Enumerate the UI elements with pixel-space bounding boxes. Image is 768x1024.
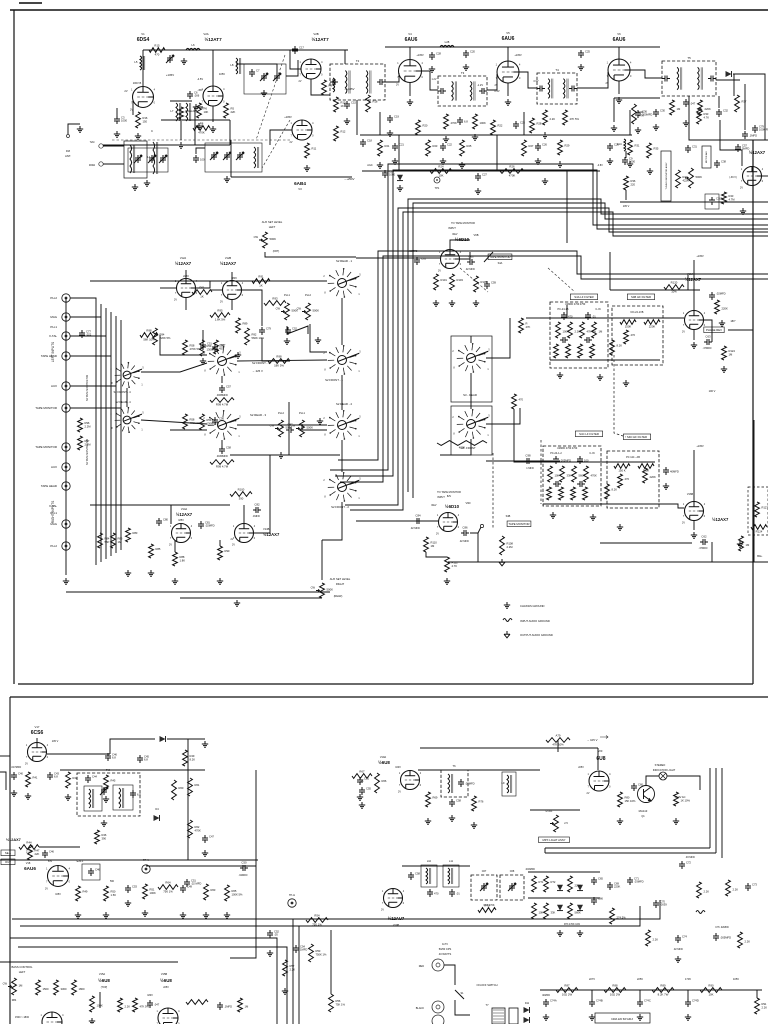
tube label 12AX7 edge [6, 838, 21, 842]
capacitor C46 in box [88, 868, 100, 877]
capacitor C58 mid [408, 872, 420, 881]
wire ant to T1 lower [103, 163, 124, 165]
svg-text:C56: C56 [219, 417, 224, 421]
svg-text:756 1%: 756 1% [163, 890, 173, 894]
svg-text:220K: 220K [722, 307, 728, 311]
dashed box HF filter right [607, 451, 659, 508]
wire V14A feed [132, 505, 171, 524]
triode V6C 6D10 [436, 513, 460, 536]
ground lower rail [234, 600, 240, 606]
triode V12A preamp [174, 279, 198, 302]
svg-text:47K 5%: 47K 5% [570, 117, 580, 121]
svg-text:+105V: +105V [284, 115, 292, 119]
resistor R41 [26, 772, 38, 787]
label D4 [155, 807, 159, 811]
coil L20 [186, 103, 191, 121]
label C48A 220 5W [611, 1018, 633, 1021]
svg-text:V6B: V6B [474, 233, 479, 237]
svg-text:.003MFD: .003MFD [525, 868, 535, 871]
svg-text:100: 100 [200, 158, 205, 162]
capacitor C23 [513, 121, 525, 130]
capacitor C101 40MFD [663, 467, 679, 475]
svg-text:R59: R59 [207, 344, 212, 348]
resistor R56 75K [329, 994, 346, 1012]
capacitor C31 [685, 145, 697, 154]
svg-text:.02MFD 4700 4750: .02MFD 4700 4750 [565, 303, 586, 306]
resistor R44 2.2M [19, 841, 39, 854]
label PC-24-1-2 [550, 452, 562, 455]
svg-text:R87: R87 [564, 984, 570, 988]
label Q1 [641, 815, 645, 818]
resistor R37 [735, 95, 747, 112]
ground R51 [142, 910, 148, 916]
svg-text:V4: V4 [408, 32, 412, 36]
resistor R16 [136, 112, 148, 128]
svg-text:C46: C46 [95, 868, 100, 872]
svg-text:R64: R64 [165, 881, 171, 885]
ground C28 [429, 66, 435, 72]
svg-text:C28: C28 [436, 52, 441, 56]
resistor R?3 [726, 880, 739, 896]
svg-text:T3: T3 [461, 71, 465, 75]
svg-text:R66: R66 [382, 779, 387, 783]
triode V16A [682, 311, 706, 334]
wire tape monitor switch [484, 252, 493, 262]
triode V15A partial [40, 1012, 65, 1024]
section 1 border left [13, 10, 15, 684]
ground filter r3 [617, 524, 623, 530]
svg-text:V12B: V12B [225, 256, 232, 260]
svg-text:L5: L5 [134, 60, 138, 64]
svg-text:2V: 2V [299, 80, 302, 83]
svg-text:470: 470 [519, 398, 524, 402]
svg-text:R12: R12 [341, 130, 346, 134]
tube label 6AU6 third [613, 37, 626, 43]
svg-text:V18: V18 [26, 861, 31, 865]
switch wafer S2 REAR-2 [323, 410, 361, 440]
capacitor C60b [631, 783, 643, 792]
label TP-H [289, 893, 295, 897]
wire input bus 1 [95, 300, 97, 565]
wire V5 screen drop [523, 112, 525, 135]
ground C74D [685, 1014, 691, 1020]
triode V19B [381, 889, 405, 912]
svg-text:-0.8V: -0.8V [597, 164, 603, 167]
resistor 470 f [624, 330, 636, 344]
svg-text:R21: R21 [385, 144, 390, 148]
switch wafer S3-FRONT [452, 409, 490, 439]
IF transformer T2 [330, 59, 385, 100]
svg-text:R99 4.7M: R99 4.7M [216, 403, 229, 407]
wire T3 to V5 grid [487, 74, 497, 90]
wire v12a plate [185, 270, 187, 279]
svg-text:.03 MFD: .03 MFD [685, 856, 695, 859]
svg-text:.47MFD: .47MFD [699, 547, 708, 550]
svg-text:TAPE MONITOR: TAPE MONITOR [489, 255, 510, 259]
label C75 .02MFD [715, 926, 729, 929]
ground det [683, 120, 689, 126]
boxed vertical label METER ADJ [702, 146, 711, 168]
svg-text:R56: R56 [336, 999, 341, 1003]
pot R79 balance [291, 420, 313, 437]
svg-text:1K: 1K [200, 295, 204, 299]
capacitor C63 out [704, 335, 712, 346]
boxed label S4B HF FILTER [627, 294, 654, 300]
resistor R47 [28, 845, 40, 860]
ground R85 [148, 570, 154, 576]
capacitor C9b [622, 157, 635, 166]
ground V12B [235, 352, 241, 358]
capacitor C74A [543, 999, 557, 1008]
svg-text:C: C [151, 129, 153, 133]
tube label V16A 12AX7 [685, 277, 702, 282]
svg-text:½6U8: ½6U8 [98, 978, 110, 983]
label (REAR) [334, 595, 343, 598]
dashed box HF filter left [612, 306, 663, 365]
svg-text:R51: R51 [150, 888, 155, 892]
svg-text:→+250V: →+250V [344, 177, 355, 181]
svg-text:R45: R45 [111, 779, 116, 783]
label S1 [460, 992, 464, 995]
svg-text:C7: C7 [256, 69, 260, 73]
label V12B [225, 256, 232, 260]
svg-text:L7: L7 [170, 109, 174, 113]
svg-text:2V: 2V [682, 522, 685, 525]
resistor det 1 [670, 100, 681, 115]
svg-text:1.8K 5%: 1.8K 5% [215, 318, 226, 322]
label S2 REAR-1 [336, 259, 352, 263]
coil T6 [448, 774, 453, 793]
bus line 9 right [620, 201, 768, 203]
resistor filter right 1 [548, 466, 560, 482]
label ANT [65, 154, 71, 158]
wire V5 cathode [507, 83, 509, 96]
resistor R66 right col [375, 773, 387, 793]
svg-text:L8: L8 [230, 63, 234, 67]
ground C30 [653, 124, 659, 130]
ground v16a cathode [691, 342, 697, 348]
wire s3 link vertical [470, 373, 472, 409]
svg-text:C46: C46 [49, 850, 54, 854]
capacitor C51b [357, 777, 369, 786]
capacitor filter left mid a [560, 337, 568, 343]
capacitor C2A osc section [134, 155, 142, 163]
svg-text:X-TAL: X-TAL [49, 334, 57, 338]
svg-text:6.8: 6.8 [144, 758, 148, 762]
svg-text:560: 560 [110, 880, 115, 883]
pot R-101 mpx light [550, 815, 558, 832]
label 1059 [219, 72, 225, 76]
svg-text:C74: C74 [682, 935, 687, 939]
ground if 3 [542, 132, 548, 138]
wire V16A plate [693, 260, 695, 310]
label .02MFD 4700 [565, 303, 586, 306]
capacitor C52 [285, 327, 297, 336]
capacitor C79 coupling [259, 327, 271, 336]
svg-text:R90: R90 [225, 549, 230, 553]
svg-text:C51: C51 [364, 777, 369, 781]
svg-text:150K: 150K [625, 325, 632, 329]
ground V6 cathode [616, 97, 622, 103]
svg-text:R99 4.7M: R99 4.7M [216, 465, 229, 469]
svg-text:C87: C87 [287, 423, 293, 427]
resistor R63 [204, 884, 216, 900]
svg-text:BLACK: BLACK [416, 1007, 425, 1010]
dashed box C68 [500, 875, 524, 900]
svg-text:.0039MFD: .0039MFD [216, 455, 228, 458]
svg-text:½12AX7: ½12AX7 [220, 261, 237, 266]
wire wafer r3 drop [221, 440, 223, 446]
wire rail rise to D3 [110, 739, 155, 754]
svg-text:R76: R76 [479, 800, 484, 804]
svg-text:V16B: V16B [687, 492, 694, 496]
resistor R94 220K [153, 328, 171, 345]
label -0.8V [597, 164, 603, 167]
svg-text:R98: R98 [276, 355, 282, 359]
wire filter feed right [514, 409, 535, 462]
svg-text:S4A: S4A [498, 262, 503, 265]
svg-text:(FRT): (FRT) [273, 250, 280, 253]
coil T1 primary [130, 145, 135, 173]
wire pots join [287, 326, 308, 334]
svg-text:2.2K: 2.2K [733, 888, 739, 892]
svg-text:225V: 225V [637, 977, 643, 981]
capacitor C74B [589, 999, 603, 1008]
wire v2b out [311, 79, 330, 95]
label .02MFD C84 [410, 527, 420, 530]
svg-text:S2 FRONT - 4: S2 FRONT - 4 [113, 390, 131, 394]
resistor R103 [450, 274, 464, 290]
svg-text:R: R [526, 322, 528, 326]
capacitor C47 [202, 835, 214, 844]
svg-text:R120: R120 [671, 281, 678, 285]
capacitor C40 [11, 772, 23, 781]
svg-text:CW: CW [254, 235, 259, 239]
svg-text:OUT: OUT [5, 860, 11, 864]
pin label 2V [124, 89, 127, 93]
ground matrix 2 [577, 930, 583, 936]
svg-text:105 V: 105 V [623, 205, 630, 208]
dashed diagonal filter link [460, 268, 575, 292]
svg-text:10K: 10K [709, 993, 714, 997]
svg-text:.047: .047 [154, 1003, 160, 1007]
label 225V arrow [252, 369, 263, 373]
svg-text:V17: V17 [35, 725, 40, 729]
svg-text:R86: R86 [118, 537, 123, 541]
svg-text:R96: R96 [85, 421, 90, 425]
wire 6d10b out rail [448, 561, 500, 563]
svg-text:S2 TAPE MONITOR SW: S2 TAPE MONITOR SW [86, 438, 89, 465]
svg-text:.1MFD: .1MFD [252, 515, 260, 518]
ground C19 [387, 130, 393, 136]
tube label V12A 12AX7 [175, 261, 192, 266]
svg-text:18K 5%: 18K 5% [274, 364, 284, 368]
svg-text:.02MFD 4700 4700: .02MFD 4700 4700 [557, 447, 578, 450]
resistor filter left row2 1 [554, 344, 559, 358]
wire R44 rail [39, 846, 80, 848]
svg-text:TP-H: TP-H [289, 893, 295, 897]
svg-text:.047MFD: .047MFD [11, 766, 21, 769]
capacitor C45 top b [137, 755, 149, 764]
capacitor C55 [359, 787, 371, 796]
label S3-REAR [463, 393, 477, 397]
resistor R112 [445, 557, 459, 572]
label ON-OFF SWITCH [477, 983, 498, 987]
ground C52b [267, 950, 273, 956]
svg-text:C74B: C74B [596, 999, 603, 1003]
ground R29 [557, 161, 563, 167]
svg-text:6DS4: 6DS4 [137, 37, 150, 43]
capacitor C98 [524, 454, 532, 465]
svg-text:R101: R101 [441, 278, 448, 282]
svg-text:470K: 470K [198, 131, 205, 135]
box C48A 220 5W [595, 1013, 650, 1023]
svg-text:100: 100 [584, 459, 589, 463]
svg-text:L14: L14 [617, 142, 622, 146]
svg-text:2V: 2V [232, 544, 235, 547]
capacitor C7 [249, 69, 260, 78]
resistor filter left 2 [568, 322, 581, 338]
svg-text:S2 FRONT - 2: S2 FRONT - 2 [331, 505, 349, 509]
svg-text:470K: 470K [451, 121, 457, 125]
coil L6 [186, 43, 200, 50]
boxed label S4A LF FILTER [570, 294, 597, 300]
svg-text:R18: R18 [373, 100, 378, 104]
tube label 6U8 [596, 756, 605, 762]
resistor R29 [558, 140, 570, 155]
svg-text:C26: C26 [542, 143, 547, 147]
resistor R24 [430, 165, 452, 178]
svg-text:2V: 2V [587, 792, 590, 795]
wire bus mpx drop 2 [298, 926, 300, 1024]
svg-text:1000: 1000 [389, 173, 395, 177]
resistor R53 750K [309, 944, 327, 962]
svg-text:C47: C47 [209, 835, 214, 839]
svg-text:75K 1%: 75K 1% [336, 1003, 346, 1007]
switch wafer S2 FRONT-2 [323, 472, 361, 502]
wire V4 plate to rail [409, 47, 411, 59]
wire v12b grid in [210, 289, 222, 291]
ground R45 [103, 796, 109, 802]
tube label 12AT7 second half [311, 36, 329, 42]
svg-text:D4: D4 [155, 807, 159, 811]
svg-text:22K: 22K [231, 110, 236, 114]
box S3 REAR [451, 336, 492, 402]
svg-text:C98: C98 [525, 454, 531, 458]
svg-text:C49: C49 [187, 885, 192, 889]
svg-text:.02MFD: .02MFD [239, 874, 248, 877]
svg-text:R27: R27 [529, 144, 534, 148]
svg-text:422K: 422K [683, 179, 689, 183]
svg-text:1800: 1800 [79, 987, 85, 991]
ground C58c [449, 815, 455, 821]
label S3-FRONT [460, 446, 476, 450]
resistor R18 input [366, 95, 378, 112]
svg-text:2V: 2V [381, 909, 384, 912]
wire v2b grid [290, 50, 301, 69]
dashed tuning gang line [112, 139, 290, 141]
wire 6d10b input [356, 520, 438, 522]
resistor R86 1M [111, 533, 123, 548]
capacitor C9 gang [223, 152, 231, 160]
capacitor C5 trimmer [166, 55, 174, 63]
wire 6d10b drop [477, 533, 479, 562]
svg-text:C65: C65 [598, 877, 603, 881]
ground V1 cathode [114, 131, 120, 137]
wire filter bottom right [543, 503, 655, 505]
ground R82 [673, 818, 679, 824]
wire diode out down [733, 74, 735, 96]
section 1 border bottom [18, 683, 753, 685]
svg-text:C44: C44 [92, 775, 97, 779]
svg-text:V15B: V15B [161, 972, 168, 976]
label 1500-1800 [15, 1016, 30, 1019]
tube label 6AU6 doubler [24, 866, 36, 871]
pot bass left [3, 978, 23, 995]
resistor R21 screen [378, 140, 390, 156]
svg-text:R72: R72 [551, 880, 556, 884]
svg-text:R69: R69 [433, 796, 438, 800]
svg-text:C40: C40 [18, 772, 23, 776]
svg-text:100V B: 100V B [133, 81, 142, 85]
label 0.5V [494, 89, 500, 93]
label 82V [447, 495, 452, 498]
wire osc cluster [236, 64, 277, 73]
resistor R58 470K [183, 340, 201, 355]
svg-text:227V: 227V [589, 977, 595, 981]
capacitor C42 [130, 790, 141, 798]
svg-text:2.2M: 2.2M [26, 850, 33, 854]
input jack TAPE MONITOR 447 [35, 443, 70, 451]
tube label 6AU6 first [405, 37, 418, 43]
input jack PH-2 546 [50, 542, 70, 550]
diode D11 [524, 1007, 530, 1013]
wire agc drop 2 [496, 135, 498, 171]
svg-text:C-IN: C-IN [595, 308, 600, 311]
bus line 2 [335, 170, 768, 476]
svg-text:.0039: .0039 [660, 903, 667, 907]
terminal dot [67, 135, 70, 138]
capacitor C84 input [414, 514, 422, 525]
capacitor C46b [42, 850, 54, 859]
wire input bus 6 [120, 320, 122, 550]
resistor R9 [322, 80, 333, 95]
capacitor C28 [429, 52, 441, 61]
wire doubler rail [60, 769, 205, 771]
wire filter bottom [550, 359, 660, 361]
svg-text:1000: 1000 [629, 160, 635, 164]
ground R16 [135, 133, 141, 139]
svg-text:R89: R89 [660, 984, 666, 988]
diode D4 [154, 815, 160, 821]
ground S2R2 arrow [317, 418, 323, 424]
resistor R50 [104, 886, 117, 901]
coil L10 [426, 868, 431, 884]
capacitor filter C b [585, 312, 596, 320]
resistor R102 470K [437, 441, 487, 450]
svg-text:TO TAPE MONITOR: TO TAPE MONITOR [437, 490, 461, 494]
switch wafer S2 FRONT-4 [110, 362, 144, 388]
dashed box T8 [77, 773, 140, 816]
svg-text:R50: R50 [111, 890, 116, 894]
wire V6 cathode [618, 81, 620, 94]
wire 6CS6 plate [36, 738, 38, 742]
resistor filter right 4 [584, 466, 597, 482]
resistor R51 [143, 884, 156, 899]
svg-text:T2: T2 [356, 59, 360, 63]
svg-text:-4.5V: -4.5V [197, 77, 203, 81]
ground R65 [224, 912, 230, 918]
